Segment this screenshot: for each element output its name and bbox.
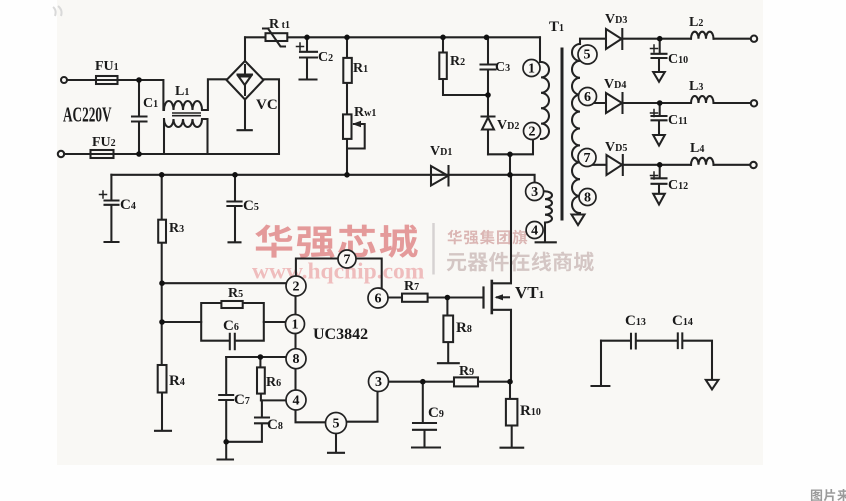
svg-text:C11: C11: [668, 113, 688, 128]
svg-text:2: 2: [293, 280, 300, 295]
svg-text:Rw1: Rw1: [354, 105, 376, 120]
svg-text:6: 6: [375, 292, 382, 307]
svg-text:7: 7: [344, 253, 351, 268]
svg-text:C3: C3: [495, 60, 510, 75]
svg-text:2: 2: [529, 125, 536, 140]
svg-text:C1: C1: [143, 96, 158, 111]
svg-text:4: 4: [293, 394, 300, 409]
svg-text:VD2: VD2: [497, 118, 519, 133]
svg-text:UC3842: UC3842: [313, 326, 368, 343]
svg-text:L3: L3: [689, 79, 703, 94]
svg-text:1: 1: [292, 318, 299, 333]
svg-text:4: 4: [531, 224, 538, 239]
svg-text:3: 3: [531, 185, 538, 200]
svg-text:R9: R9: [459, 364, 474, 379]
svg-text:R6: R6: [266, 375, 281, 390]
svg-text:FU1: FU1: [95, 59, 119, 74]
svg-text:6: 6: [584, 90, 591, 105]
svg-text:VD5: VD5: [605, 140, 627, 155]
svg-text:C10: C10: [668, 52, 688, 67]
svg-text:7: 7: [584, 151, 591, 166]
svg-text:R2: R2: [450, 54, 465, 69]
svg-text:L4: L4: [690, 141, 704, 156]
svg-text:L2: L2: [689, 15, 703, 30]
svg-text:AC220V: AC220V: [63, 102, 112, 126]
svg-text:5: 5: [584, 48, 591, 63]
svg-text:C12: C12: [668, 178, 688, 193]
svg-text:1: 1: [528, 62, 535, 77]
svg-text:8: 8: [293, 352, 300, 367]
svg-text:VD3: VD3: [605, 12, 627, 27]
svg-text:R3: R3: [169, 221, 184, 236]
svg-text:R5: R5: [228, 286, 243, 301]
svg-text:R t1: R t1: [269, 17, 290, 32]
svg-text:C2: C2: [318, 50, 333, 65]
svg-text:VD4: VD4: [604, 77, 626, 92]
svg-text:R7: R7: [404, 279, 419, 294]
svg-text:VC: VC: [256, 97, 278, 113]
svg-text:8: 8: [584, 191, 591, 206]
svg-text:L1: L1: [175, 84, 189, 99]
svg-text:R1: R1: [353, 61, 368, 76]
svg-text:5: 5: [333, 417, 340, 432]
svg-text:VD1: VD1: [430, 144, 452, 159]
svg-text:3: 3: [375, 375, 382, 390]
svg-text:FU2: FU2: [92, 135, 116, 150]
